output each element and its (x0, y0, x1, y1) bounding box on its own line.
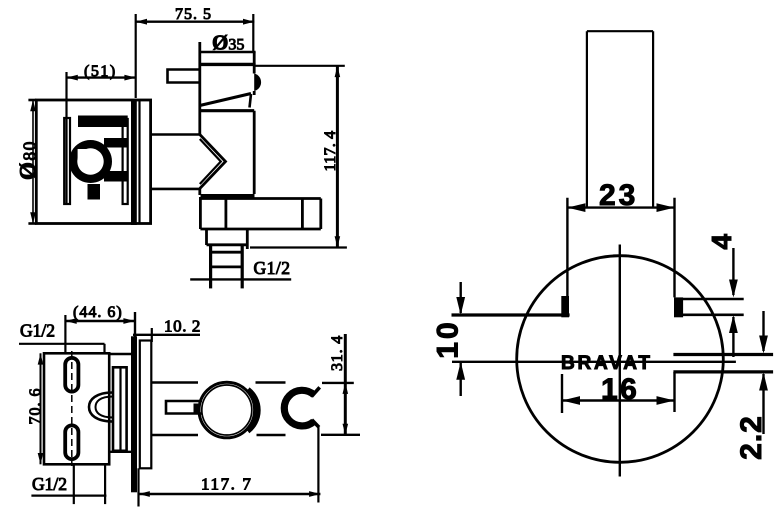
svg-text:4: 4 (706, 233, 737, 249)
dim (44.6) (65, 312, 135, 352)
outlet pipe (200, 197, 320, 229)
dim 10 (456, 282, 465, 396)
port dashed centerline (71, 351, 73, 466)
adapter box (113, 367, 127, 451)
bracket right bar (123, 119, 128, 204)
step lines (109, 354, 131, 452)
lever tab (250, 94, 252, 108)
dim 70.6 (38, 353, 44, 464)
svg-text:BRAVAT: BRAVAT (561, 353, 653, 374)
dim 4 (729, 248, 738, 357)
bracket arm upper (104, 138, 128, 148)
plate front bar bottom view (131, 336, 137, 492)
dim 117.4 (250, 66, 347, 248)
ring white notch (78, 149, 89, 160)
body shoulder line (200, 109, 254, 112)
inlet port capsule upper (65, 358, 78, 392)
body right edge upper (253, 52, 256, 74)
dim 75.5 line (136, 14, 255, 98)
escutcheon circle (517, 256, 724, 463)
right notch filled square (674, 297, 683, 317)
plate slab bottom view (140, 341, 152, 469)
handle bulge bottom view (89, 393, 113, 422)
body V notch (200, 135, 226, 196)
holder arm bottom edge (151, 434, 286, 437)
ear boss (254, 74, 261, 92)
plate front thick bar (131, 99, 137, 225)
svg-text:2.2: 2.2 (735, 415, 768, 460)
dim 23 (567, 198, 674, 298)
svg-text:Ø80: Ø80 (16, 140, 41, 180)
svg-text:G1/2: G1/2 (32, 474, 67, 494)
svg-text:70. 6: 70. 6 (27, 388, 44, 425)
dim 117.7 (139, 468, 321, 506)
dim 16 (562, 372, 675, 413)
dim 31.4 (321, 334, 360, 436)
body right edge mid (253, 91, 256, 95)
vertical centerline (619, 245, 621, 477)
svg-text:117. 4: 117. 4 (322, 131, 339, 172)
dim (51) line (67, 72, 136, 205)
right notch slot lines (683, 299, 744, 315)
inlet port capsule lower (65, 425, 78, 459)
G1/2 upper leader (19, 344, 105, 353)
block right edge (253, 111, 256, 194)
svg-text:(51): (51) (84, 63, 117, 80)
horizontal centerline (452, 361, 736, 363)
svg-text:23: 23 (599, 179, 638, 212)
svg-text:10: 10 (432, 319, 465, 358)
connector pipe lines (151, 135, 200, 189)
svg-text:117. 7: 117. 7 (201, 475, 252, 494)
block bottom thick bar (201, 194, 255, 199)
knob circle bottom view (199, 382, 255, 438)
spout rect (168, 70, 200, 83)
knob stem rect (166, 401, 202, 414)
pipe nut (207, 229, 248, 249)
lever diagonal (200, 94, 251, 106)
right slot lines (673, 355, 773, 372)
svg-text:G1/2: G1/2 (20, 321, 55, 341)
body top cap line (199, 63, 256, 66)
valve body bottom view (44, 353, 109, 464)
spray holder C cup (284, 390, 314, 426)
C cup tip flare (312, 387, 320, 396)
svg-text:(44. 6): (44. 6) (73, 304, 123, 321)
lower pipe G1/2 (190, 245, 291, 288)
valve bracket left bar (64, 118, 70, 204)
valve handle ring (69, 140, 112, 183)
wall plate side view (28, 100, 150, 224)
dim 2.2 (759, 311, 768, 434)
dim 10.2 underline (133, 334, 200, 336)
G1/2 lower underline (31, 495, 106, 497)
bracket stub below ring (88, 184, 101, 200)
faucet body left edge (198, 42, 201, 135)
svg-text:31. 4: 31. 4 (329, 335, 346, 371)
dim Ø35 leader line (200, 42, 256, 52)
bracket arm lower (104, 171, 128, 182)
supply tube (587, 31, 653, 207)
svg-text:10. 2: 10. 2 (164, 317, 201, 336)
knob blob (248, 390, 258, 431)
dim Ø80 arrows (30, 100, 36, 224)
valve bracket top bar (78, 116, 128, 128)
svg-text:75. 5: 75. 5 (175, 6, 212, 23)
holder leader line (317, 425, 319, 503)
svg-text:16: 16 (601, 373, 639, 406)
svg-text:G1/2: G1/2 (254, 258, 291, 278)
holder arm top edge (151, 381, 286, 384)
G1/2 lower ext lines (74, 464, 105, 504)
left notch filled square (561, 296, 569, 317)
slab stub (151, 328, 153, 342)
left notch chord line (452, 313, 570, 316)
